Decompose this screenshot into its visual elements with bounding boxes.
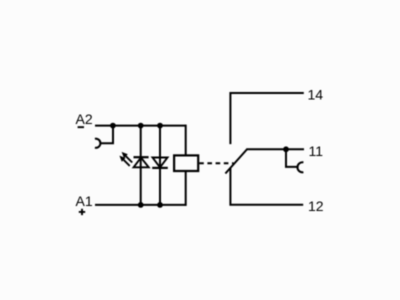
wire: plug-contact branch from 11: [286, 149, 299, 167]
wire: plug-contact branch from A2 rail: [101, 126, 113, 144]
diode D2: triangle (apex down): [153, 158, 168, 168]
wire: common 11 horizontal: [246, 148, 304, 150]
junction dot LED branch bottom: [138, 202, 144, 208]
plug-in socket contact at A2 branch (open left): [95, 139, 100, 148]
svg-text:A2: A2: [76, 111, 93, 127]
LED D1: cathode bar (top): [134, 156, 149, 158]
svg-text:14: 14: [308, 87, 324, 103]
LED D1: emission arrow 1: [122, 152, 133, 163]
junction dot diode branch bottom: [157, 202, 163, 208]
wire: NC contact 12 (vertical + bottom rail): [230, 168, 303, 204]
minus polarity sign under A2: [78, 126, 84, 128]
junction dot LED branch top: [138, 123, 144, 129]
svg-text:12: 12: [308, 198, 324, 214]
mechanical link (dashed) from coil to contact lever: [199, 162, 233, 164]
wire: diode branch vertical: [159, 126, 161, 205]
wire: NO contact 14 (vertical + top rail): [230, 93, 303, 144]
wire: coil bottom to A1 rail: [185, 171, 187, 206]
wire: LED branch vertical: [140, 126, 142, 205]
wire: coil branch from A2 rail down to coil: [185, 125, 187, 156]
junction dot diode branch top: [157, 123, 163, 129]
junction dot on 11 wire: [283, 146, 289, 152]
LED D1: emission arrow 2: [119, 156, 129, 166]
plus polarity sign under A1: [79, 209, 85, 215]
svg-text:A1: A1: [76, 193, 93, 209]
diode D2: cathode bar (bottom): [152, 167, 168, 169]
plug-in socket contact at 11 branch (open right): [297, 162, 303, 172]
relay coil K1: [174, 155, 198, 171]
LED D1: triangle (apex up): [134, 158, 149, 168]
wire: A2 horizontal rail: [95, 125, 186, 127]
contact lever (shown closed to 12): [225, 150, 246, 174]
junction dot on A2 rail at plug branch: [110, 123, 116, 129]
wire: A1 horizontal rail: [95, 204, 186, 206]
svg-text:11: 11: [309, 143, 324, 159]
